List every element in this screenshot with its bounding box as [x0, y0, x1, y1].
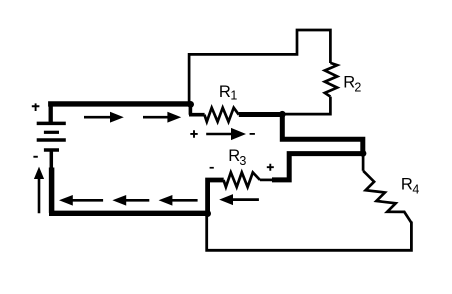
- svg-text:1: 1: [230, 88, 237, 102]
- wire: bold node B left, down to R3 right lead: [272, 154, 363, 180]
- wire: R3 left lead bold down to node C: [208, 180, 224, 214]
- battery B1 minus label: [33, 156, 37, 158]
- arrow: current right on top wire (second): [143, 112, 181, 123]
- resistor R4: [363, 171, 411, 223]
- resistor R3: [224, 172, 261, 187]
- wire: left bold vertical battery - to bottom corner: [49, 168, 55, 213]
- R1 polarity plus: [190, 130, 197, 138]
- battery B1 plus label: [32, 103, 40, 111]
- wire: R3 right thin lead: [260, 179, 274, 182]
- svg-text:2: 2: [354, 80, 361, 94]
- wire: thin loop node A1 up over to R2 top: [189, 30, 330, 104]
- R1 polarity minus: [250, 133, 255, 135]
- R3 label: [228, 147, 246, 168]
- wire: R4 thin loop node B down to zigzag: [362, 153, 365, 170]
- svg-text:4: 4: [412, 183, 419, 197]
- arrow: current left on bottom wire (third): [159, 195, 198, 206]
- R2 label: [343, 74, 361, 95]
- svg-text:R: R: [401, 175, 413, 193]
- arrow: current left on bottom wire (first): [59, 195, 103, 206]
- resistor R2: [325, 63, 337, 97]
- battery B1: [37, 104, 66, 169]
- arrow: current right on top wire (first): [84, 112, 124, 123]
- svg-text:3: 3: [239, 154, 246, 168]
- R1 label: [219, 83, 238, 103]
- wire: R2 bottom to node A: [283, 97, 330, 115]
- arrow: current right under R1: [206, 128, 246, 140]
- wire: R1 right lead bold to node A: [239, 112, 282, 117]
- R4 label: [401, 175, 420, 196]
- R3 polarity minus: [210, 167, 214, 169]
- arrow: current left under R3: [219, 194, 259, 205]
- R3 polarity plus: [267, 164, 274, 171]
- node C junction dot: [204, 210, 211, 217]
- wire: bottom bold wire corner to node C: [49, 211, 208, 216]
- node B junction dot: [360, 150, 367, 157]
- node A1 junction dot: [187, 101, 194, 108]
- arrow: current left on bottom wire (second): [112, 195, 149, 206]
- wire: R4 bottom right down, along bottom, up to node C: [207, 214, 412, 251]
- wire: node A1 down to R1 left lead: [189, 104, 205, 114]
- wire: bold node A down, right, down to node B: [282, 114, 363, 153]
- wire: battery + to node A1 (bold top wire): [48, 101, 191, 106]
- arrow: current up on left wire: [34, 167, 44, 214]
- node A junction dot: [279, 111, 286, 118]
- resistor R1: [204, 108, 238, 122]
- svg-text:R: R: [219, 83, 231, 101]
